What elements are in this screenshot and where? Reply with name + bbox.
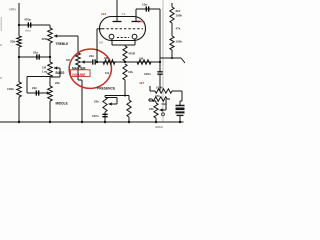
- svg-text:MIDDLE: MIDDLE: [56, 102, 68, 106]
- svg-text:1M: 1M: [139, 57, 144, 61]
- svg-text:2k2: 2k2: [101, 12, 106, 16]
- svg-text:disc: disc: [25, 29, 31, 33]
- svg-text:100n: 100n: [144, 72, 151, 76]
- svg-text:100k: 100k: [176, 40, 183, 44]
- svg-text:Log: Log: [42, 69, 48, 73]
- svg-text:220k: 220k: [42, 37, 49, 41]
- svg-text:22k: 22k: [149, 107, 154, 111]
- svg-text:22k: 22k: [94, 100, 99, 104]
- svg-text:100n: 100n: [92, 114, 99, 118]
- svg-text:4k7: 4k7: [139, 81, 144, 85]
- svg-text:22n: 22n: [32, 86, 37, 90]
- svg-text:1M: 1M: [104, 56, 109, 60]
- svg-text:TREBLE: TREBLE: [56, 42, 69, 46]
- svg-text:100k: 100k: [7, 87, 14, 91]
- svg-text:100k: 100k: [138, 20, 145, 24]
- svg-text:100k: 100k: [176, 14, 183, 18]
- svg-text:8k2: 8k2: [176, 9, 181, 13]
- svg-text:BIAS: BIAS: [156, 125, 163, 129]
- svg-text:VOLUME: VOLUME: [72, 73, 86, 77]
- svg-text:10k: 10k: [128, 70, 133, 74]
- svg-text:10k: 10k: [105, 71, 110, 75]
- svg-text:22n: 22n: [89, 54, 94, 58]
- svg-text:47k: 47k: [155, 94, 160, 98]
- svg-text:100k: 100k: [156, 86, 163, 90]
- svg-text:PRESENCE: PRESENCE: [97, 87, 116, 91]
- svg-text:33k: 33k: [10, 40, 15, 44]
- svg-text:140v: 140v: [9, 8, 16, 12]
- svg-text:47k: 47k: [176, 27, 181, 31]
- svg-text:C3: C3: [122, 12, 126, 16]
- svg-text:a: a: [0, 43, 2, 47]
- svg-text:470p: 470p: [24, 18, 31, 22]
- svg-text:a: a: [0, 76, 2, 80]
- svg-text:470R: 470R: [128, 52, 136, 56]
- svg-text:22k: 22k: [55, 81, 60, 85]
- svg-text:1M: 1M: [99, 41, 104, 45]
- svg-text:10n: 10n: [142, 3, 147, 7]
- svg-text:RB1: RB1: [162, 102, 168, 106]
- svg-text:22n: 22n: [33, 51, 38, 55]
